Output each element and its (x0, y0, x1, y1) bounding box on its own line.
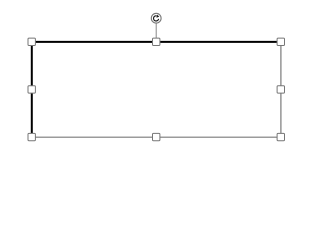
shape border left (thick black) (31, 41, 33, 138)
selected shape with selection handles (office-style) (0, 0, 311, 162)
selection border right (thin gray) (280, 42, 282, 137)
selection border bottom (thin gray) (32, 136, 281, 138)
handle middle-right (277, 86, 284, 93)
rotation arrow glyph (153, 16, 158, 21)
rotation handle circle (151, 13, 161, 23)
handle top-middle (153, 38, 160, 45)
handle bottom-left (28, 133, 35, 140)
shape border top (thick black) (31, 41, 282, 43)
handle middle-left (28, 86, 35, 93)
rotation arrowhead (156, 15, 159, 18)
handle bottom-middle (153, 133, 160, 140)
rotation handle stem (155, 23, 157, 38)
handle top-right (277, 38, 284, 45)
handle top-left (28, 38, 35, 45)
handle bottom-right (277, 133, 284, 140)
